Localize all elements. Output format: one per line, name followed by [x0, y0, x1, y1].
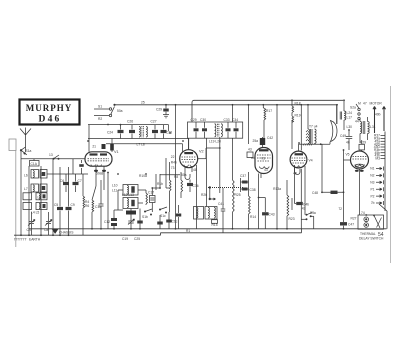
switch S2a	[350, 104, 360, 124]
wire input bus	[28, 166, 30, 235]
wire jog y174.7	[160, 155, 187, 177]
svg-text:C7: C7	[78, 179, 82, 183]
svg-text:50a: 50a	[117, 109, 123, 113]
trimmer capacitors C14 C15	[104, 210, 117, 229]
resistor R23	[273, 180, 295, 229]
V5 pins	[344, 140, 367, 215]
svg-text:T7 u4: T7 u4	[309, 125, 318, 129]
V2 pin wires	[185, 139, 197, 180]
V4 pins	[295, 105, 309, 229]
capacitor C21	[157, 215, 163, 229]
svg-text:M3: M3	[375, 157, 380, 161]
capacitor C10	[79, 160, 84, 174]
svg-text:C11: C11	[95, 205, 101, 209]
svg-text:R1: R1	[186, 229, 190, 233]
V3 pins	[251, 158, 261, 198]
svg-text:N1: N1	[370, 167, 374, 171]
capacitor C22	[166, 212, 177, 229]
wire V2 cathode x196	[196, 165, 198, 229]
capacitor C11	[95, 180, 104, 229]
thermal delay switch	[350, 211, 383, 229]
resistor R25	[233, 160, 241, 229]
nameplate box MURPHY D46	[20, 100, 80, 125]
svg-text:R27: R27	[350, 217, 356, 221]
svg-text:25: 25	[141, 101, 145, 105]
top HT rail lower	[114, 104, 337, 106]
capacitor C27	[151, 120, 159, 139]
svg-text:L30: L30	[346, 125, 352, 129]
svg-text:C12: C12	[104, 220, 110, 224]
resistor R4	[83, 174, 89, 235]
svg-text:R1b: R1b	[157, 182, 163, 186]
svg-text:L19 L20: L19 L20	[209, 140, 221, 144]
svg-text:50a8: 50a8	[96, 172, 104, 176]
capacitor C41	[218, 188, 225, 233]
capacitor C28	[161, 125, 173, 139]
svg-text:C29: C29	[156, 108, 162, 112]
capacitor C26	[127, 120, 135, 139]
capacitor C25	[134, 209, 143, 241]
capacitor C42	[252, 136, 273, 148]
capacitor C33	[224, 118, 231, 138]
svg-text:C9: C9	[71, 203, 75, 207]
svg-text:R29: R29	[360, 141, 366, 145]
wire left mid	[47, 173, 88, 175]
svg-text:C47: C47	[348, 223, 354, 227]
capacitor C36	[187, 180, 199, 193]
earth tag text bottom left	[14, 238, 41, 242]
resistor R8	[174, 172, 183, 198]
grid line to V1	[21, 158, 85, 160]
svg-text:D46: D46	[39, 115, 62, 125]
wire V2 anode to IF2	[198, 137, 220, 193]
wire ladder to switch	[379, 204, 387, 211]
ground hatch under T7	[303, 144, 313, 146]
svg-text:L17: L17	[347, 116, 353, 120]
screened lead dotted	[201, 186, 243, 200]
switch S1c	[49, 153, 60, 160]
loudspeaker cone	[330, 121, 337, 145]
capacitor C49	[340, 130, 352, 150]
capacitor C7	[73, 174, 82, 192]
svg-text:V3: V3	[261, 157, 265, 161]
capacitor C37	[240, 174, 249, 192]
capacitor C30	[200, 118, 207, 138]
capacitor C17	[148, 188, 155, 212]
svg-text:50a: 50a	[181, 173, 187, 177]
svg-text:C38: C38	[250, 188, 256, 192]
output transformer T7	[306, 105, 330, 145]
capacitor C24	[107, 125, 124, 139]
svg-text:R15: R15	[212, 223, 218, 227]
svg-text:R6: R6	[85, 204, 89, 208]
svg-text:S3a: S3a	[310, 211, 316, 215]
detector transformer L21	[194, 207, 204, 220]
padder capacitor C18	[126, 211, 136, 215]
svg-text:C49: C49	[340, 134, 346, 138]
svg-text:13: 13	[49, 153, 53, 157]
capacitor C5	[54, 203, 63, 235]
resistor R18	[292, 100, 301, 149]
wire IF2 secondary to detector	[205, 138, 207, 206]
svg-text:R23: R23	[289, 217, 295, 221]
switch S3a	[301, 207, 316, 229]
IF transformer 2 can	[188, 122, 243, 138]
terminal ladder entries	[370, 132, 385, 212]
valve V4 output	[290, 151, 313, 175]
wire x322 vertical	[321, 144, 323, 192]
thermal delay switch caption	[359, 232, 384, 241]
svg-text:43: 43	[248, 148, 252, 152]
svg-text:C17: C17	[148, 191, 154, 195]
capacitor C38	[241, 188, 256, 193]
svg-text:C29: C29	[191, 118, 197, 122]
svg-text:25a: 25a	[252, 139, 258, 143]
smoothing choke L24	[340, 100, 352, 130]
svg-text:C27: C27	[151, 120, 157, 124]
IF transformer coils L19 L20	[209, 124, 222, 144]
svg-text:L10: L10	[112, 184, 118, 188]
svg-text:R8: R8	[174, 175, 178, 179]
svg-text:C1c: C1c	[172, 220, 178, 224]
mains transformer L30 L31	[346, 117, 375, 143]
svg-text:N3: N3	[370, 181, 374, 185]
svg-text:THERMAL: THERMAL	[360, 232, 376, 236]
valve V5 rectifier	[345, 151, 368, 172]
svg-text:S1: S1	[98, 105, 102, 109]
svg-text:S1a: S1a	[26, 149, 32, 153]
long vertical wires mid	[232, 104, 297, 204]
svg-text:S2a: S2a	[350, 106, 356, 110]
variable capacitor C4	[27, 212, 36, 235]
svg-text:7b: 7b	[371, 201, 375, 205]
IF transformer 1 rails	[88, 125, 189, 139]
svg-text:R17: R17	[266, 109, 272, 113]
oscillator coil L10	[112, 184, 138, 196]
svg-text:L7: L7	[24, 187, 28, 191]
svg-text:22: 22	[171, 155, 175, 159]
svg-text:P1: P1	[370, 187, 374, 191]
capacitor C29	[156, 104, 169, 118]
capacitor C48b smoothing	[312, 191, 344, 195]
svg-text:EARTH: EARTH	[29, 238, 41, 242]
svg-text:L12 L13: L12 L13	[122, 193, 134, 197]
trimmer C1a	[30, 159, 40, 166]
grid resistor box V3	[247, 148, 253, 158]
capacitor C6	[60, 174, 69, 192]
capacitor C20	[176, 205, 182, 229]
switch S1b	[142, 209, 152, 219]
wire speaker lead x337	[336, 105, 338, 124]
oscillator coil L12	[122, 193, 138, 209]
svg-text:C1A: C1A	[31, 162, 38, 166]
capacitor C34	[232, 118, 239, 138]
resistor R17	[263, 105, 273, 138]
svg-text:MOTOR: MOTOR	[370, 101, 383, 105]
wire x344 vertical lower	[343, 150, 345, 222]
svg-text:R14: R14	[250, 215, 256, 219]
svg-text:C43: C43	[269, 213, 275, 217]
svg-text:R19: R19	[295, 114, 301, 118]
oscillator detail labels	[96, 172, 161, 189]
svg-text:L8: L8	[38, 195, 42, 199]
svg-text:C33: C33	[224, 118, 230, 122]
svg-text:M: M	[358, 101, 361, 105]
svg-text:C6: C6	[60, 179, 64, 183]
svg-text:46: 46	[346, 141, 350, 145]
valve V3 IF amplifier	[255, 148, 273, 174]
svg-text:74: 74	[361, 211, 365, 215]
svg-text:CHASSIS: CHASSIS	[59, 231, 74, 235]
wire osc verticals	[114, 174, 160, 210]
svg-text:21: 21	[92, 145, 96, 149]
coil L7	[24, 184, 47, 192]
svg-text:V2: V2	[199, 150, 204, 154]
svg-text:47: 47	[363, 101, 367, 105]
svg-text:C24: C24	[107, 131, 113, 135]
resistor R6	[85, 186, 96, 229]
switch S1 mains	[94, 104, 123, 121]
svg-text:DELAY SWITCH: DELAY SWITCH	[359, 237, 384, 241]
svg-text:43: 43	[264, 168, 268, 172]
top HT rail upper	[192, 100, 343, 122]
aerial terminal box left edge	[9, 139, 16, 247]
capacitor C29b	[191, 118, 199, 138]
capacitor C43	[259, 172, 278, 229]
svg-text:C26: C26	[127, 120, 133, 124]
svg-text:V5: V5	[345, 153, 349, 157]
chassis ground symbol	[53, 229, 75, 234]
antenna	[20, 128, 31, 153]
detector transformer L22	[205, 207, 218, 227]
resistor R14	[249, 172, 257, 229]
svg-text:49b: 49b	[375, 113, 381, 117]
svg-text:L7 L8: L7 L8	[137, 142, 145, 146]
svg-text:C30: C30	[200, 118, 206, 122]
svg-text:P2: P2	[370, 194, 374, 198]
capacitor C9	[66, 192, 75, 235]
coil L9	[23, 203, 47, 215]
svg-text:C34: C34	[232, 118, 238, 122]
switch S1c	[159, 207, 167, 218]
svg-text:73: 73	[171, 166, 175, 170]
V1 pin wires	[73, 125, 114, 186]
scan edge shadow left	[390, 86, 392, 263]
wire antenna to input	[21, 147, 26, 150]
svg-text:R2: R2	[98, 117, 102, 121]
capacitor C46	[292, 198, 309, 210]
capacitor C19	[122, 209, 135, 241]
svg-text:L4 L5: L4 L5	[31, 211, 39, 215]
valve V2 frequency changer	[180, 150, 204, 168]
svg-text:C41: C41	[218, 202, 224, 206]
svg-text:S1c: S1c	[160, 214, 166, 218]
svg-text:R25: R25	[235, 193, 241, 197]
svg-text:C37: C37	[240, 174, 246, 178]
svg-text:48: 48	[193, 168, 197, 172]
svg-text:L6: L6	[24, 174, 28, 178]
svg-text:C5: C5	[54, 203, 58, 207]
wire V2 aux verticals	[157, 158, 171, 212]
capacitor C47	[338, 207, 354, 229]
IF transformer coils L7 L8	[137, 126, 148, 146]
variable capacitor C8	[44, 212, 52, 235]
long vertical wire x175	[175, 104, 177, 229]
svg-text:C36: C36	[193, 184, 199, 188]
svg-text:C28: C28	[166, 131, 172, 135]
main chassis bus	[14, 211, 387, 235]
svg-text:ΓΓΓΓΓΓΓ: ΓΓΓΓΓΓΓ	[14, 238, 27, 242]
valve V1 triode-hexode	[85, 150, 119, 166]
svg-text:L11: L11	[112, 189, 117, 193]
coil L8	[23, 193, 47, 200]
wire IF1 to V2	[169, 125, 189, 149]
svg-text:L24: L24	[347, 111, 353, 115]
svg-text:R13a: R13a	[273, 187, 281, 191]
coil L6 with trimmer C2	[24, 170, 47, 179]
switch S1a aerial	[20, 149, 32, 155]
svg-text:C42: C42	[267, 136, 273, 140]
svg-text:R4b: R4b	[171, 160, 177, 164]
svg-text:R18: R18	[295, 102, 301, 106]
svg-text:V4: V4	[309, 159, 313, 163]
svg-text:44: 44	[355, 120, 359, 124]
wire V1 pin x108 down	[104, 172, 108, 229]
svg-text:MURPHY: MURPHY	[26, 103, 73, 113]
svg-text:V1: V1	[114, 150, 119, 154]
svg-text:C25: C25	[134, 237, 140, 241]
svg-text:C48: C48	[312, 191, 318, 195]
grid cap C21 on V1	[92, 144, 105, 149]
svg-text:72: 72	[338, 207, 342, 211]
svg-text:S1b: S1b	[142, 215, 148, 219]
svg-text:C19: C19	[122, 237, 128, 241]
motor label and leads	[358, 101, 386, 133]
AVC line	[106, 144, 183, 152]
svg-text:N2: N2	[370, 174, 374, 178]
svg-text:43: 43	[302, 207, 306, 211]
svg-text:R2b: R2b	[201, 193, 207, 197]
